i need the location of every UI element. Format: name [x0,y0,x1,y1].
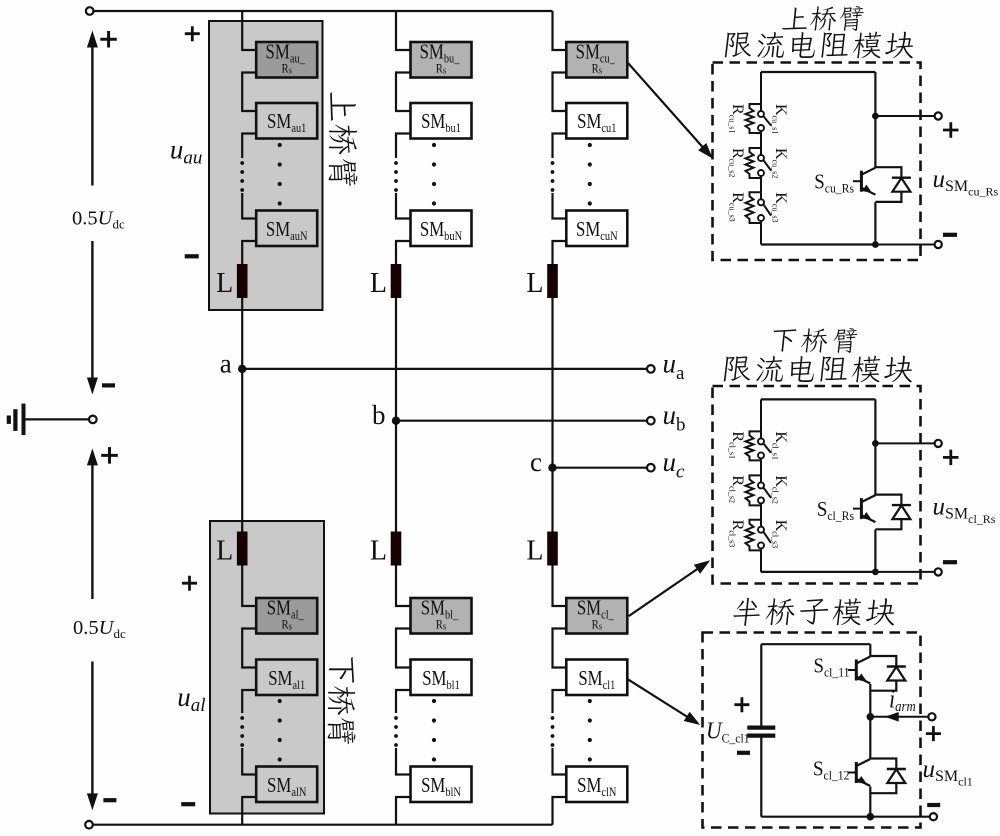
submodule SMau1 [256,103,317,139]
node b junction [392,417,400,425]
wire: ground to midpoint terminal [26,418,89,420]
ellipsis dots between SMau1 and SMauN [278,143,282,147]
output + terminal [935,440,942,447]
capacitor U_C_cl1 [760,644,762,727]
inductor L (lower arm c) [547,532,558,566]
wire: phase a top bus drop to SMau_Rs [242,11,256,50]
submodule SMal1 [256,660,317,696]
title: current-limiting resistor module (lower) [724,356,915,383]
IGBT S_cl_Rs [860,498,863,519]
wire: node a to lower arm inductor [241,369,243,532]
minus sign (u_al) [181,802,195,806]
resistor R_cu_s2 [746,148,762,178]
bottom wire and output terminal [761,816,929,818]
dashed box: half-bridge submodule [703,633,921,828]
inductor L (upper arm c) [547,264,558,298]
wire: - output lead [875,571,934,573]
callout arrow: SMcl_Rs to lower resistor module [629,567,701,617]
submodule SMbl1 [411,660,472,696]
wire: SMbl_Rs to SMbl1 [396,629,411,668]
output - terminal [935,241,942,248]
title: upper bridge arm [782,6,865,31]
wire: inductor to SMbl_Rs [396,566,411,607]
half-bridge right wire upper [869,644,871,656]
module right wire [874,72,876,168]
junction dot (half-bridge bottom) [867,813,875,821]
label R_cu_s3 [728,192,747,221]
plus sign (u_al) [182,576,197,591]
submodule SMcuN [566,211,627,247]
wire: SMclN to bottom bus [553,797,567,825]
label: lower bridge arm (vertical) [328,657,356,744]
wire: SMau1 down (dotted continuation) to SMauN [242,134,256,159]
knife switch K_cl_s1 [760,431,762,438]
minus sign (lower arrow bottom) [103,798,116,802]
wire: SMbu1 down (dotted continuation) to SMbuN [396,134,411,159]
title: current-limiting resistor module (upper) [725,32,916,59]
submodule SMcl_Rs [566,598,627,634]
label R_cu_s1 [728,104,747,133]
plus sign (capacitor) [734,697,749,712]
module left wire [760,72,762,104]
wire: between IGBTs, midpoint junction [869,684,871,759]
svg-text:L: L [216,268,233,299]
resistor R_cl_s2 [746,475,762,505]
wire: SMal1 down (dotted continuation) to SMalN [242,690,256,713]
label R_cl_s3 [728,520,747,548]
minus sign (capacitor) [737,751,750,755]
submodule SMal_Rs [256,598,317,634]
wire: SMcl1 down (dotted continuation) to SMclN [553,690,567,713]
diode (antiparallel, S_cl_Rs) [875,495,901,506]
IGBT S_cu_Rs [860,171,863,192]
wire: inductor to SMcl_Rs [553,566,567,607]
wire: SMblN to bottom bus [396,797,411,825]
label K_cl_s1 [771,431,790,459]
wire: SMcu_Rs to SMcu1 [553,73,567,112]
wire: - output lead [875,244,934,246]
svg-text:L: L [526,536,543,567]
i_arm wire with arrow into midpoint [870,716,928,718]
inductor L (lower arm a) [237,532,248,566]
title: lower bridge arm [771,328,858,353]
wire: SMbl1 down (dotted continuation) to SMblN [396,690,411,713]
top DC bus wire [94,10,553,12]
diode (antiparallel, S_cl_11) [870,656,896,667]
resistor R_cl_s3 [746,520,762,551]
output terminal u_a [647,365,655,373]
submodule SMblN [411,767,472,803]
submodule SMcu_Rs [566,42,627,78]
resistor R_cl_s1 [746,431,762,460]
wire: SMbu_Rs to SMbu1 [396,73,411,112]
half-bridge top wire [761,643,870,645]
resistor R_cu_s3 [746,192,762,223]
wire: node b to lower arm inductor [395,421,397,532]
lower arm grey panel (phase a) [210,521,324,814]
submodule SMcl1 [566,660,627,696]
plus sign (u_au) [185,26,200,41]
title: half-bridge submodule [732,598,897,626]
module top wire [761,398,875,400]
submodule SMauN [256,211,317,247]
svg-text:b: b [372,400,386,430]
node c junction [548,464,556,472]
knife switch K_cu_s1 [760,104,762,111]
dashed box: 上桥臂 current-limit resistor module [713,63,921,261]
label K_cl_s3 [771,520,790,548]
svg-text:a: a [220,348,232,378]
wire: node c to output terminal u_c [553,467,648,469]
wire: + output lead [875,115,934,117]
output + terminal [935,112,942,119]
plus sign (lower arrow top) [101,447,118,464]
wire: inductor to SMal_Rs [242,566,256,607]
svg-text:L: L [370,268,387,299]
knife switch K_cl_s2 [760,475,762,482]
submodule SMalN [256,767,317,803]
callout arrow: SMcu_Rs to upper resistor module [628,63,703,147]
ground symbol [22,404,26,436]
bottom DC bus wire [93,824,553,826]
wire: SMauN to arm inductor [242,241,256,264]
module right wire [874,399,876,495]
ellipsis dots between SMbl1 and SMblN [432,699,436,703]
dashed box: 下桥臂 current-limit resistor module [713,386,921,584]
submodule SMbu_Rs [411,42,472,78]
submodule SMbu1 [411,103,472,139]
junction dot (- lead) [872,569,879,576]
wire: SMalN to bottom bus [242,797,256,825]
inductor L (upper arm a) [237,264,248,298]
wire: phase c top bus drop to SMcu_Rs [553,11,567,50]
plus sign at DC positive terminal [100,31,117,48]
ellipsis dots between SMcu1 and SMcuN [588,143,592,147]
svg-text:L: L [370,536,387,567]
wire: SMau_Rs to SMau1 [242,73,256,112]
callout arrow: SMcl1 to half-bridge module [628,679,692,719]
output - terminal [935,568,942,575]
submodule SMcu1 [566,103,627,139]
output terminal u_c [647,464,655,472]
inductor L (upper arm b) [391,264,402,298]
module bottom wire [761,571,875,573]
ellipsis dots between SMal1 and SMalN [278,699,282,703]
wire: SMal_Rs to SMal1 [242,629,256,668]
wire: SMcu1 down (dotted continuation) to SMcuN [553,134,567,159]
DC positive terminal (top left) [86,7,94,15]
DC negative terminal (bottom left) [85,821,93,829]
label K_cl_s2 [771,475,790,503]
module bottom wire [761,243,875,245]
IGBT S_cl_11 [855,660,858,681]
minus sign (u_au) [185,254,199,258]
wire: node a to output terminal u_a [242,368,647,370]
label K_cu_s1 [771,104,790,134]
node a junction [238,365,246,373]
lower 0.5Udc measurement arrow (double headed) [91,461,93,599]
svg-text:L: L [216,536,233,567]
junction dot (+ lead) [872,440,879,447]
svg-text:L: L [526,268,543,299]
diode (antiparallel, S_cu_Rs) [875,167,901,178]
DC midpoint terminal [89,416,97,424]
submodule SMbuN [411,211,472,247]
diode (antiparallel, S_cl_12) [870,759,896,770]
wire: inductor to node b [395,298,397,421]
svg-text:c: c [530,447,542,477]
label K_cu_s3 [771,192,790,222]
knife switch K_cu_s3 [760,192,762,199]
submodule SMclN [566,767,627,803]
label R_cl_s1 [728,431,747,459]
label R_cu_s2 [728,148,747,177]
label: upper bridge arm (vertical) [329,92,358,186]
IGBT S_cl_12 [855,762,858,783]
wire: SMcl_Rs to SMcl1 [553,629,567,668]
upper 0.5Udc measurement arrow (double headed) [91,44,93,186]
label K_cu_s2 [771,148,790,178]
module left wire [760,399,762,431]
ellipsis dots between SMcl1 and SMclN [588,699,592,703]
inductor L (lower arm b) [391,532,402,566]
output terminal u_b [647,417,655,425]
junction dot (+ lead) [872,113,879,120]
wire: inductor to node a [241,298,243,369]
wire: phase b top bus drop to SMbu_Rs [396,11,411,50]
wire: node c to lower arm inductor [551,468,553,532]
minus sign (upper arrow bottom) [102,383,115,387]
knife switch K_cu_s2 [760,148,762,155]
wire: SMbuN to arm inductor [396,241,411,264]
wire: node b to output terminal u_b [396,420,647,422]
upper arm grey panel (phase a) [209,21,323,310]
wire: + output lead [875,442,934,444]
junction dot (half-bridge midpoint) [867,713,875,721]
junction dot (- lead) [872,241,879,248]
label R_cl_s2 [728,475,747,503]
module top wire [761,71,875,73]
knife switch K_cl_s3 [760,520,762,527]
ellipsis dots between SMbu1 and SMbuN [432,143,436,147]
resistor R_cu_s1 [746,104,762,133]
wire: inductor to node c [551,298,553,468]
wire: SMcuN to arm inductor [553,241,567,264]
submodule SMbl_Rs [411,598,472,634]
submodule SMau_Rs [256,42,317,78]
